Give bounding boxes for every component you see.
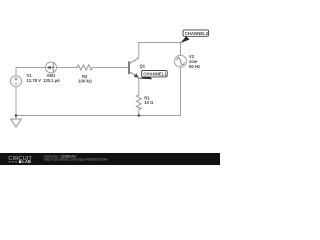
label R1 value <box>144 95 153 105</box>
wire: V1 top to AM1 <box>16 68 46 76</box>
junction dot at V1/ground <box>15 114 18 117</box>
probe flag CHANNEL1 <box>138 71 167 80</box>
wire: V1 bottom to ground rail <box>15 87 17 116</box>
ammeter AM1 arrow <box>47 66 51 70</box>
label R2 value <box>78 74 92 84</box>
wire: V2 bottom to rail <box>180 67 182 115</box>
transistor Q1 <box>129 58 139 78</box>
resistor R2 <box>77 65 93 70</box>
svg-text:50 Hz: 50 Hz <box>189 64 200 69</box>
sine source V2 <box>175 55 187 67</box>
wire: top rail to V2 <box>180 43 182 56</box>
junction dot at R1 bottom <box>138 114 141 117</box>
footer bar <box>0 153 220 165</box>
wire: Q1 collector to top rail <box>138 43 140 58</box>
wire: R2 to Q1 base <box>93 67 129 69</box>
ground <box>11 116 22 128</box>
wire: top rail <box>139 42 181 44</box>
svg-text:12.78 V: 12.78 V <box>27 78 42 83</box>
label AM1 value <box>43 73 60 83</box>
wire: AM1 to R2 <box>57 67 78 69</box>
CircuitLab logo <box>8 156 32 164</box>
transistor Q1 emitter arrow <box>134 73 139 78</box>
svg-text:100 kΩ: 100 kΩ <box>78 79 92 84</box>
svg-text:CHANNEL1: CHANNEL1 <box>143 72 167 77</box>
svg-text:CHANNEL2: CHANNEL2 <box>185 31 209 36</box>
label V2 value <box>189 54 200 69</box>
voltage source V1 <box>11 76 22 87</box>
ammeter AM1 <box>46 62 57 73</box>
svg-text:http://circuitlab.com/c6pu4rta: http://circuitlab.com/c6pu4rta93d7d3w <box>44 158 108 162</box>
resistor R1 <box>136 95 141 110</box>
wire: Q1 emitter to R1 <box>138 78 140 95</box>
probe flag CHANNEL2 <box>180 30 209 43</box>
footer text <box>44 154 108 161</box>
wire: bottom rail <box>16 115 181 117</box>
svg-text:120.1 µA: 120.1 µA <box>43 78 60 83</box>
wire: R1 bottom to rail <box>138 110 140 116</box>
svg-text:LAB: LAB <box>22 159 31 164</box>
svg-text:10 Ω: 10 Ω <box>144 100 153 105</box>
label V1 value <box>27 73 42 83</box>
svg-text:Q1: Q1 <box>140 63 146 68</box>
